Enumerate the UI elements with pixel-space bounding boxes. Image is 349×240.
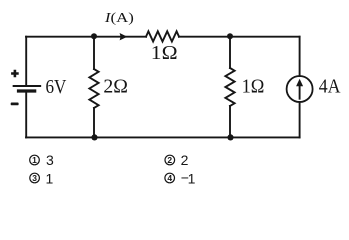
svg-text:2: 2 <box>181 152 189 168</box>
svg-text:4A: 4A <box>319 76 341 97</box>
svg-text:I(A): I(A) <box>104 11 135 26</box>
svg-text:3: 3 <box>32 173 37 183</box>
svg-text:3: 3 <box>46 152 54 168</box>
svg-text:1Ω: 1Ω <box>242 76 265 98</box>
svg-text:1: 1 <box>188 170 196 186</box>
svg-text:2: 2 <box>167 155 172 165</box>
svg-text:1: 1 <box>46 170 54 186</box>
svg-text:2Ω: 2Ω <box>103 76 128 98</box>
svg-text:1: 1 <box>32 155 37 165</box>
svg-text:6V: 6V <box>46 76 67 98</box>
svg-text:4: 4 <box>167 173 172 183</box>
svg-text:1Ω: 1Ω <box>151 42 178 64</box>
